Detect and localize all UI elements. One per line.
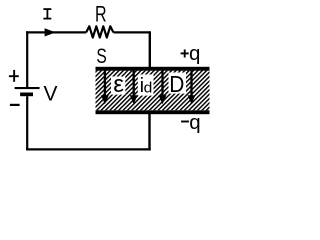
field arrow 4 bbox=[188, 71, 196, 105]
wire top right segment bbox=[113, 31, 149, 33]
capacitor top plate bbox=[96, 67, 210, 71]
label -q bbox=[181, 121, 189, 123]
svg-text:D: D bbox=[169, 71, 184, 97]
wire right vertical lower bbox=[148, 114, 150, 151]
field arrow 2 bbox=[130, 71, 138, 105]
label +q bbox=[181, 50, 189, 58]
label D box bbox=[169, 71, 187, 97]
svg-text:d: d bbox=[144, 81, 153, 97]
dielectric hatch region bbox=[96, 71, 210, 111]
svg-text:q: q bbox=[189, 42, 200, 65]
label id box bbox=[138, 75, 154, 97]
svg-text:ε: ε bbox=[113, 71, 124, 98]
field arrow 3 bbox=[159, 71, 167, 105]
svg-text:V: V bbox=[44, 83, 58, 106]
label + (battery) bbox=[9, 70, 19, 82]
field arrow 1 bbox=[101, 71, 109, 105]
resistor R bbox=[86, 26, 113, 37]
label I bbox=[43, 8, 51, 19]
epsilon label box bbox=[111, 71, 125, 98]
battery V negative plate bbox=[20, 93, 33, 97]
current arrow bbox=[45, 28, 56, 36]
wire left upper bbox=[26, 31, 28, 87]
wire right vertical upper bbox=[149, 31, 151, 68]
wire top left segment bbox=[26, 31, 86, 33]
battery V positive plate bbox=[15, 87, 40, 89]
capacitor bottom plate bbox=[96, 110, 210, 114]
svg-text:S: S bbox=[96, 45, 106, 68]
wire left lower bbox=[26, 96, 28, 150]
svg-text:q: q bbox=[189, 111, 200, 134]
wire bottom bbox=[26, 148, 151, 150]
svg-text:R: R bbox=[95, 1, 107, 26]
label - (battery) bbox=[10, 104, 20, 106]
